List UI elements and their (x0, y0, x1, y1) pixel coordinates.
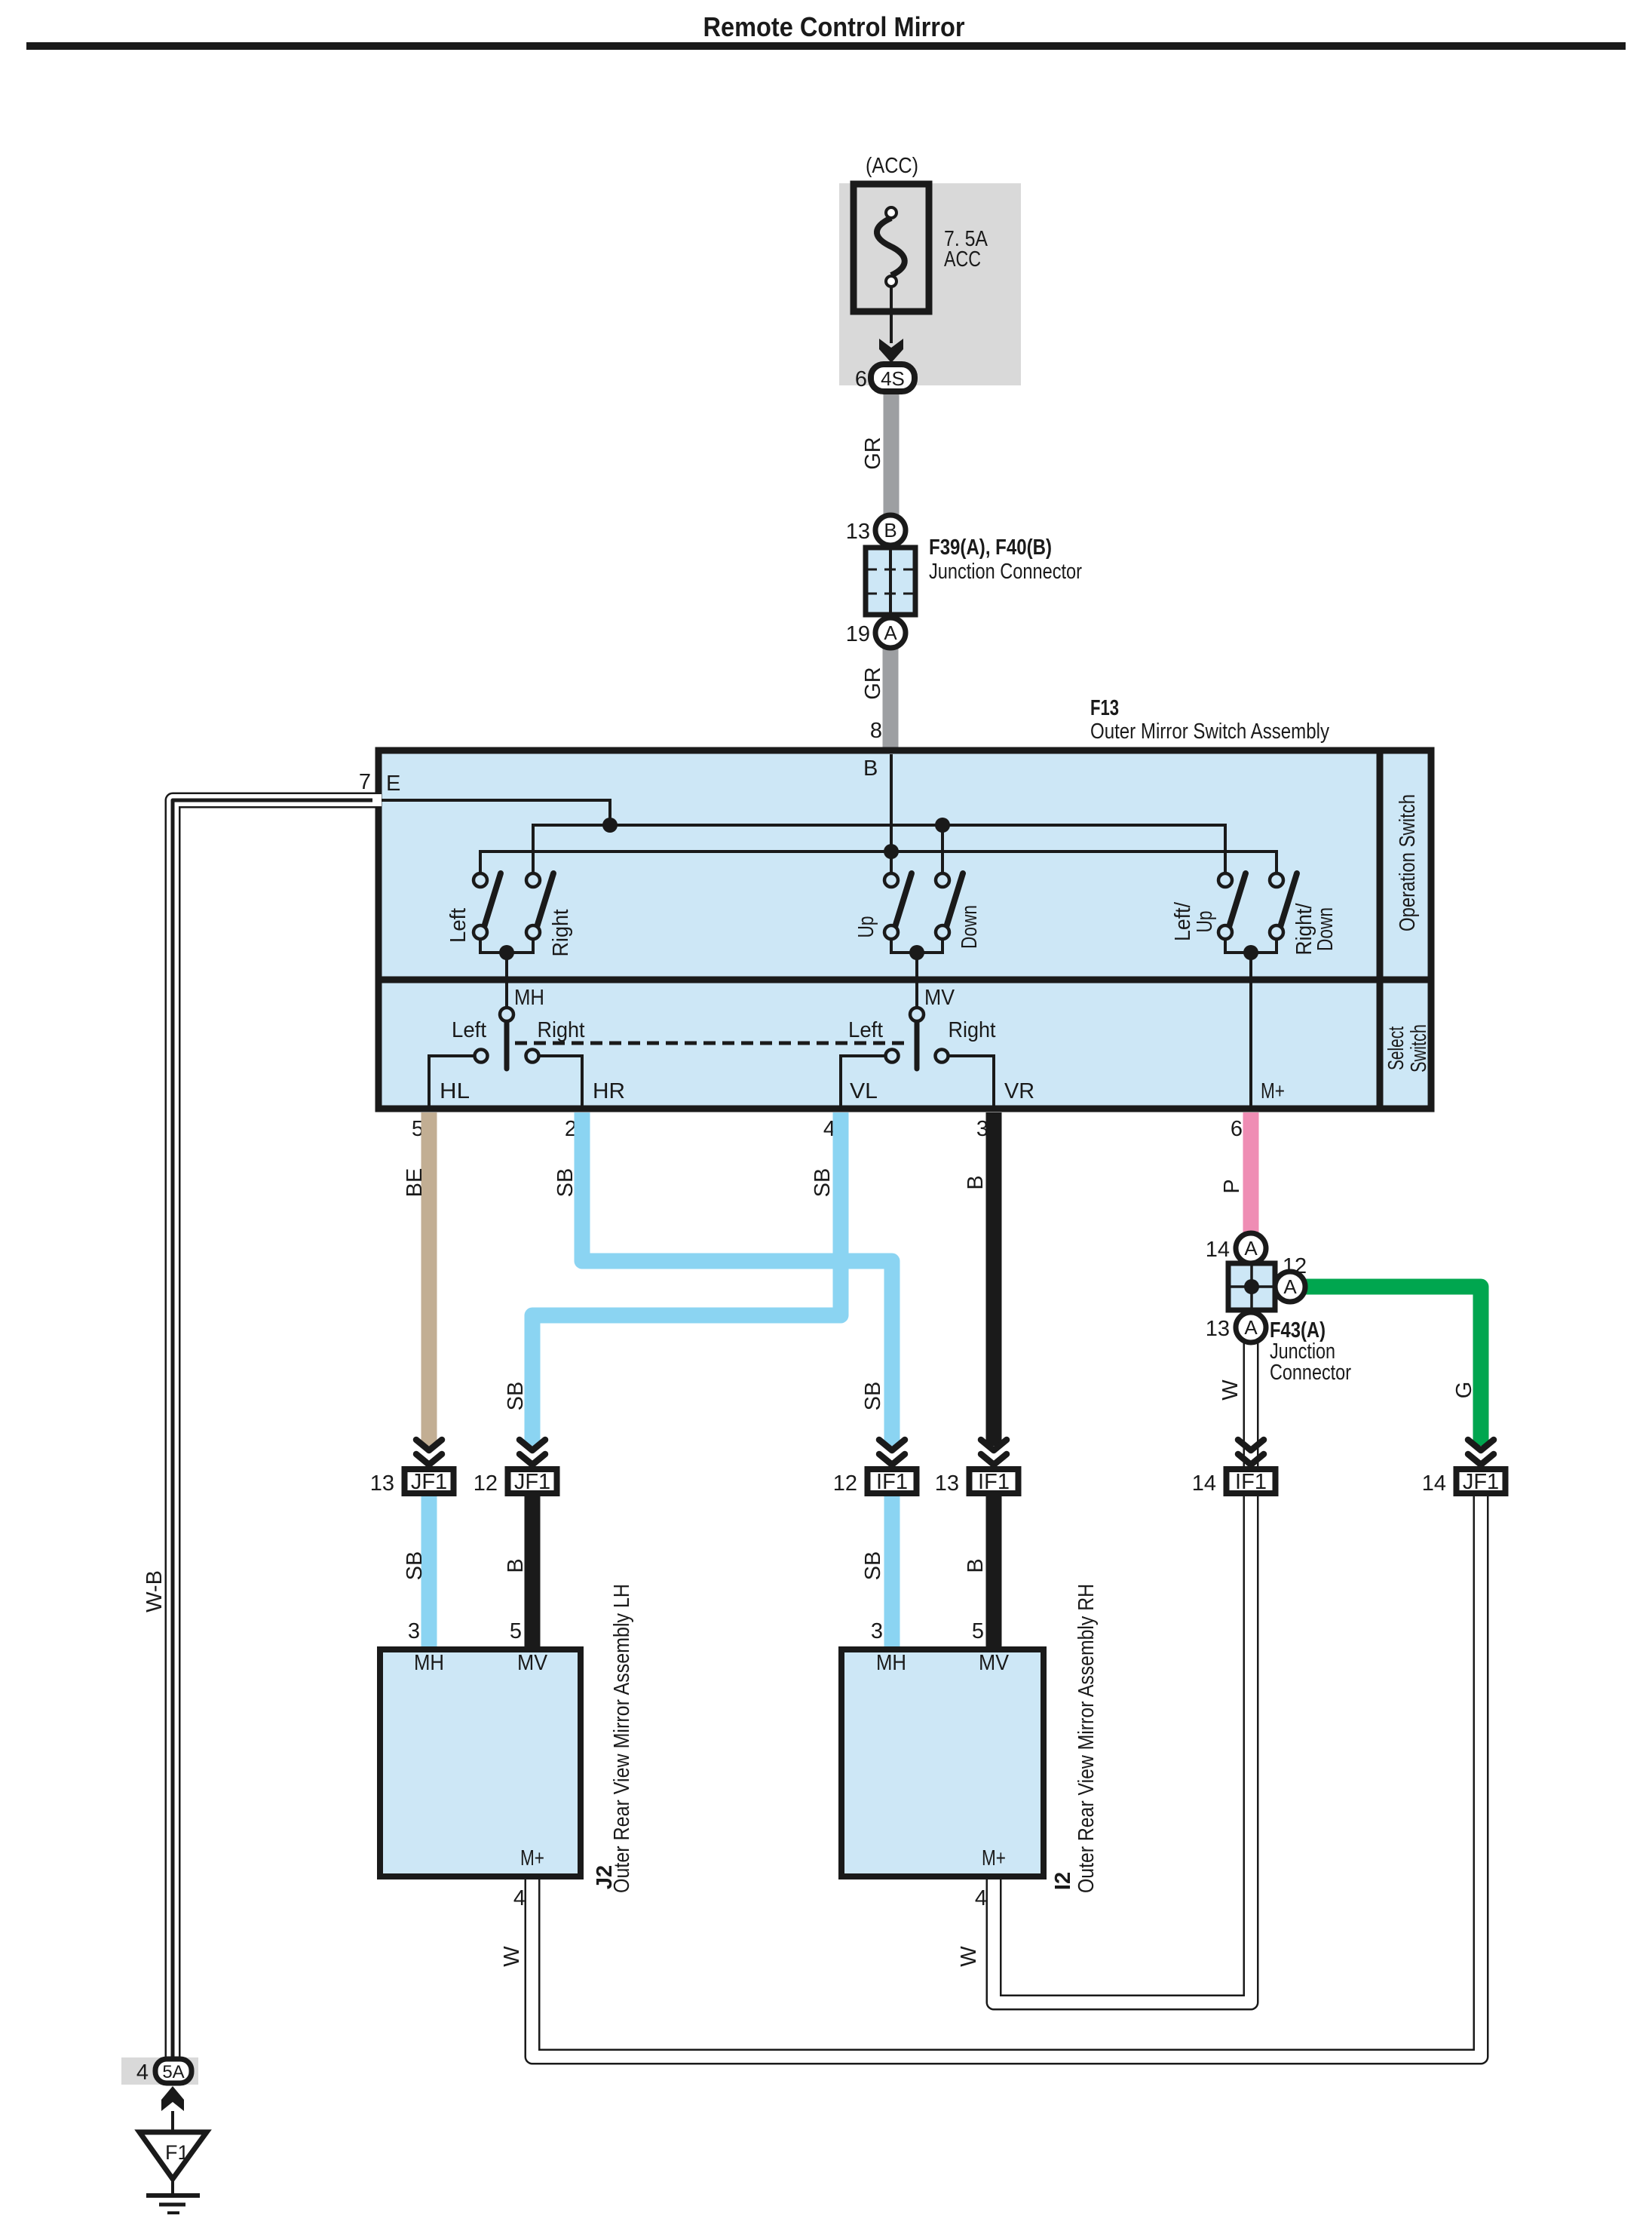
svg-text:13: 13 (370, 1471, 394, 1496)
svg-text:Right: Right (538, 1018, 585, 1042)
svg-text:MV: MV (517, 1651, 548, 1675)
svg-text:M+: M+ (520, 1846, 544, 1870)
svg-text:3: 3 (408, 1619, 420, 1643)
svg-text:Left: Left (848, 1018, 883, 1042)
svg-text:Junction Connector: Junction Connector (929, 560, 1082, 584)
svg-text:F13: F13 (1090, 696, 1119, 720)
svg-text:12: 12 (474, 1471, 498, 1496)
svg-text:A: A (1283, 1275, 1297, 1298)
svg-text:B: B (884, 519, 896, 542)
svg-text:SB: SB (861, 1382, 885, 1411)
svg-text:7: 7 (359, 770, 371, 794)
svg-text:MH: MH (514, 986, 544, 1010)
svg-text:VL: VL (850, 1079, 878, 1103)
svg-text:(ACC): (ACC) (866, 154, 918, 178)
svg-text:6: 6 (1231, 1117, 1243, 1141)
svg-text:Down: Down (958, 905, 982, 949)
svg-text:19: 19 (846, 622, 870, 646)
svg-text:BE: BE (403, 1168, 427, 1198)
svg-text:MV: MV (924, 986, 955, 1010)
svg-text:B: B (504, 1558, 528, 1573)
svg-text:SB: SB (504, 1382, 528, 1411)
svg-text:SB: SB (811, 1168, 835, 1198)
svg-text:I2: I2 (1051, 1872, 1075, 1890)
svg-text:HL: HL (440, 1079, 470, 1103)
svg-text:B: B (964, 1175, 988, 1189)
svg-text:M+: M+ (982, 1846, 1006, 1870)
svg-text:5: 5 (510, 1619, 522, 1643)
svg-text:SB: SB (403, 1551, 427, 1581)
svg-text:JF1: JF1 (411, 1470, 447, 1494)
svg-text:4: 4 (513, 1886, 526, 1910)
svg-text:13: 13 (1206, 1317, 1230, 1341)
svg-text:IF1: IF1 (876, 1470, 908, 1494)
svg-text:W-B: W-B (143, 1570, 167, 1612)
svg-text:SB: SB (861, 1551, 885, 1581)
svg-text:MH: MH (876, 1651, 906, 1675)
svg-text:F39(A), F40(B): F39(A), F40(B) (929, 535, 1052, 560)
svg-text:GR: GR (861, 437, 885, 470)
svg-text:ACC: ACC (944, 247, 981, 272)
svg-text:Left/: Left/ (1171, 901, 1195, 941)
svg-text:SB: SB (553, 1168, 578, 1198)
svg-text:5: 5 (972, 1619, 984, 1643)
svg-text:JF1: JF1 (1463, 1470, 1499, 1494)
svg-text:E: E (386, 772, 400, 796)
svg-text:IF1: IF1 (1235, 1470, 1267, 1494)
svg-text:M+: M+ (1261, 1079, 1285, 1103)
svg-text:A: A (884, 621, 897, 644)
svg-text:4S: 4S (881, 367, 905, 390)
svg-text:MV: MV (979, 1651, 1010, 1675)
svg-text:GR: GR (861, 667, 885, 700)
svg-text:IF1: IF1 (978, 1470, 1010, 1494)
svg-text:14: 14 (1206, 1238, 1230, 1262)
svg-text:A: A (1244, 1316, 1258, 1339)
svg-text:Outer Mirror Switch Assembly: Outer Mirror Switch Assembly (1090, 720, 1329, 744)
svg-text:14: 14 (1192, 1471, 1216, 1496)
svg-text:Up: Up (1193, 911, 1217, 933)
svg-text:G: G (1452, 1382, 1476, 1399)
svg-text:Connector: Connector (1270, 1361, 1351, 1385)
svg-text:Right: Right (949, 1018, 996, 1042)
svg-text:B: B (964, 1558, 988, 1573)
svg-text:14: 14 (1422, 1471, 1446, 1496)
svg-text:W: W (1218, 1379, 1243, 1401)
svg-text:4: 4 (136, 2060, 149, 2085)
svg-text:Remote Control Mirror: Remote Control Mirror (703, 11, 965, 42)
svg-text:3: 3 (871, 1619, 883, 1643)
svg-text:F1: F1 (165, 2141, 189, 2164)
svg-text:Outer Rear View Mirror Assembl: Outer Rear View Mirror Assembly RH (1074, 1584, 1099, 1893)
svg-text:Select: Select (1384, 1026, 1408, 1070)
svg-text:A: A (1244, 1237, 1258, 1260)
svg-text:Operation Switch: Operation Switch (1396, 794, 1420, 931)
svg-text:MH: MH (414, 1651, 444, 1675)
svg-text:P: P (1220, 1179, 1244, 1193)
svg-text:JF1: JF1 (514, 1470, 550, 1494)
svg-text:Right: Right (549, 910, 573, 957)
svg-text:12: 12 (833, 1471, 857, 1496)
svg-text:HR: HR (593, 1079, 625, 1103)
svg-text:13: 13 (935, 1471, 959, 1496)
svg-text:W: W (500, 1946, 524, 1967)
svg-text:VR: VR (1004, 1079, 1034, 1103)
svg-text:13: 13 (846, 520, 870, 544)
svg-text:B: B (863, 756, 878, 781)
svg-text:Left: Left (446, 908, 470, 943)
svg-text:12: 12 (1283, 1254, 1307, 1278)
svg-text:W: W (957, 1946, 981, 1967)
svg-text:Switch: Switch (1407, 1024, 1431, 1072)
svg-text:4: 4 (975, 1886, 987, 1910)
svg-text:8: 8 (870, 719, 882, 743)
svg-text:Outer Rear View Mirror Assembl: Outer Rear View Mirror Assembly LH (610, 1584, 634, 1893)
svg-text:Down: Down (1313, 907, 1338, 951)
svg-text:Left: Left (452, 1018, 486, 1042)
svg-text:5A: 5A (162, 2062, 184, 2082)
svg-text:6: 6 (855, 367, 867, 391)
svg-text:Up: Up (854, 916, 878, 938)
